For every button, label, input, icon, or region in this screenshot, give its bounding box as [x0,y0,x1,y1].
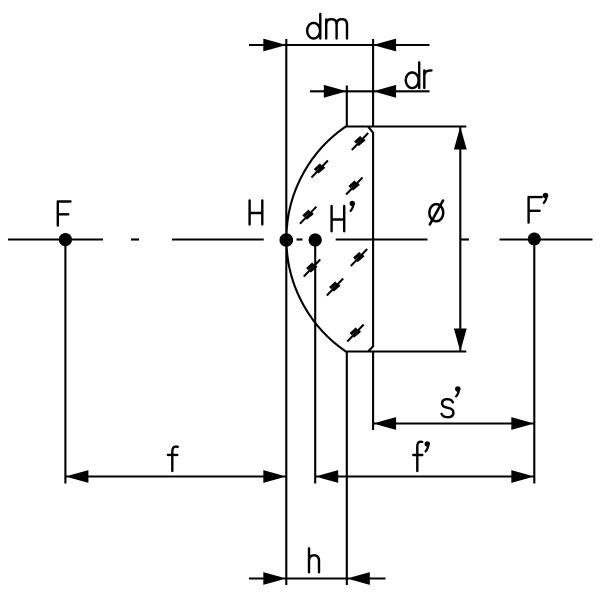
glass hatch mark 5 [351,249,367,266]
arrowhead diameter top [454,127,467,150]
lens outline (plano-convex, curved side left) [286,127,373,352]
label f [168,447,178,471]
label H' [332,202,354,231]
dimension dr line [310,90,430,92]
label F' [529,194,547,223]
arrowhead dm left [263,39,286,52]
diameter dimension extension line bottom [346,350,467,352]
focal point F' dot [528,233,541,246]
glass hatch mark 7 [327,279,343,296]
lens edge extension line (top, for dr) [346,86,348,127]
lens edge extension line (bottom, for h) [346,352,348,586]
label h [309,548,319,572]
flat face extension line top [372,39,374,127]
dimension f line [65,475,286,477]
arrowhead h right [347,572,370,585]
flat face extension line bottom [372,352,374,431]
arrowhead dr left [324,85,347,98]
dimension dm line [249,44,430,46]
arrowhead f' left [315,470,338,483]
diameter symbol [429,201,443,225]
focal point F dot [59,233,72,246]
glass hatch mark 1 [352,133,368,150]
arrowhead f left [65,470,88,483]
principal point H dot [280,233,294,247]
glass hatch mark 6 [304,260,320,277]
principal point H' dot [309,233,322,246]
F focal point extension line [64,246,66,484]
arrowhead f right [263,470,286,483]
arrowhead dr right [373,85,396,98]
principal plane H vertical line [285,39,287,585]
diameter dimension extension line top [346,125,467,127]
arrowhead s' right [511,417,534,430]
glass hatch mark 4 [300,207,316,224]
label dm [307,14,347,39]
arrowhead dm right [373,39,396,52]
label f' [413,442,428,471]
dimension h line [249,577,386,579]
glass hatch mark 2 [312,161,328,178]
principal plane H' vertical line [314,240,316,484]
label F [58,202,71,226]
arrowhead diameter bottom [454,329,467,352]
diameter dimension line [459,127,461,352]
glass hatch mark 3 [346,178,362,195]
glass hatch mark 8 [347,325,363,342]
label dr [406,62,432,88]
dimension f' line [315,475,534,477]
optical axis centerline [8,238,593,240]
F' focal point extension line [533,245,535,484]
arrowhead h left [263,572,286,585]
arrowhead f' right [511,470,534,483]
label s' [442,388,460,418]
dimension s' line [373,422,534,424]
arrowhead s' left [373,417,396,430]
label H [250,201,263,225]
